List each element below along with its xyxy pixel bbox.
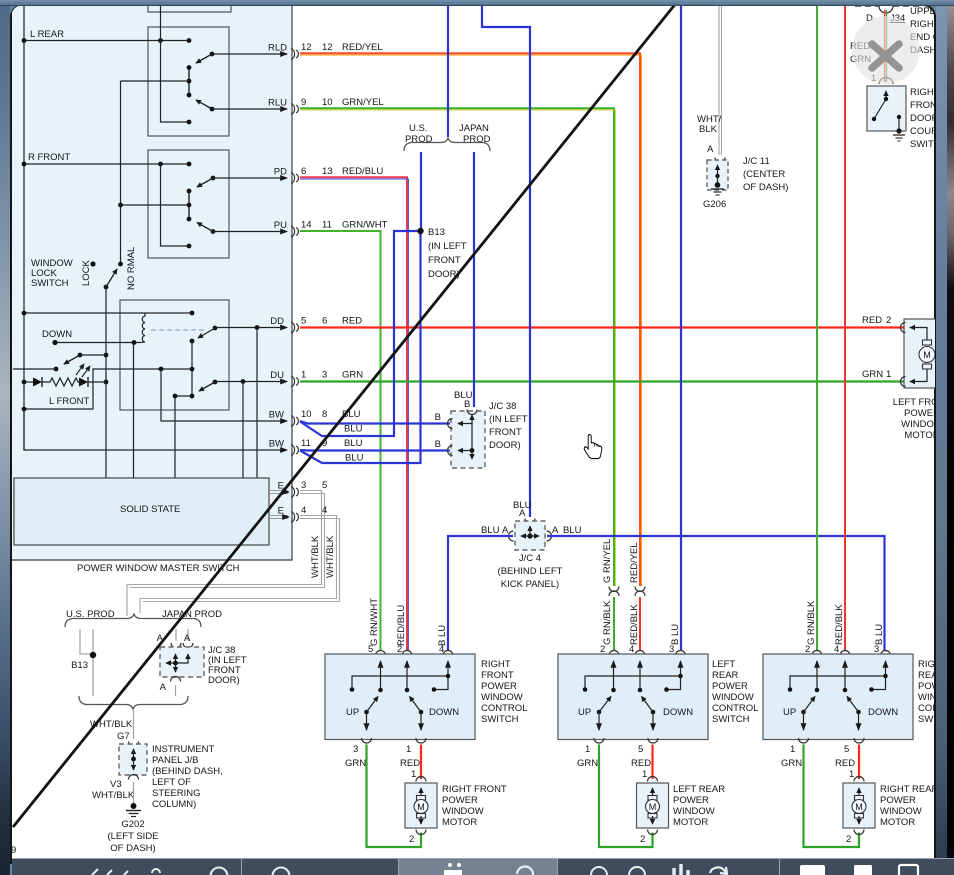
connector pin RLU 9/10 xyxy=(268,97,384,115)
svg-text:NO RMAL: NO RMAL xyxy=(126,247,137,290)
svg-text:A: A xyxy=(519,508,526,519)
motor right front power window xyxy=(405,777,437,846)
wire U.S. arm left xyxy=(80,629,93,654)
wire JAPAN arm A2 xyxy=(187,629,189,641)
connector pin BW 11/9 xyxy=(269,438,364,464)
svg-text:POWER: POWER xyxy=(904,408,940,419)
svg-text:BLK: BLK xyxy=(699,124,718,135)
svg-text:M: M xyxy=(649,802,657,812)
junction connector J/C 4 xyxy=(509,508,552,550)
wire RLU out xyxy=(212,108,287,110)
wire GRN left rear return xyxy=(577,744,653,847)
window lock switch lever xyxy=(104,269,117,289)
svg-text:A: A xyxy=(552,525,559,536)
svg-text:G RN/WHT: G RN/WHT xyxy=(369,598,380,646)
svg-text:RED: RED xyxy=(835,758,855,769)
splice B13 xyxy=(417,227,466,280)
label J/C 38 text xyxy=(489,401,528,451)
wire WHT/BLK to G202 xyxy=(133,782,135,806)
wire WHT/BLK E2 xyxy=(140,516,340,614)
wire lock pivot down xyxy=(104,287,109,478)
svg-text:2: 2 xyxy=(640,834,645,845)
svg-text:BLU: BLU xyxy=(563,525,582,536)
diode D2 xyxy=(79,377,106,387)
svg-text:LEFT OF: LEFT OF xyxy=(152,777,191,788)
label GRN 1 at left front motor xyxy=(862,369,891,380)
svg-text:B13: B13 xyxy=(428,227,445,238)
relay coil K1 xyxy=(140,313,145,343)
svg-text:G202: G202 xyxy=(121,819,144,830)
svg-text:B: B xyxy=(435,439,441,450)
svg-text:GRN: GRN xyxy=(345,758,366,769)
svg-text:E: E xyxy=(278,506,284,517)
close button X xyxy=(852,16,920,84)
rotated wire labels above right rear switch xyxy=(806,600,885,645)
svg-text:RED/BLK: RED/BLK xyxy=(629,604,640,645)
wire E2 out of solid state xyxy=(269,516,288,519)
svg-text:13: 13 xyxy=(322,166,333,177)
svg-text:(BEHIND LEFT: (BEHIND LEFT xyxy=(498,566,563,577)
svg-text:INSTRUMENT: INSTRUMENT xyxy=(152,744,214,755)
wire RED/YEL xyxy=(300,53,641,586)
annotation diagonal line xyxy=(13,2,677,827)
svg-text:GRN: GRN xyxy=(781,758,802,769)
label RIGHT FRONT DOOR COURTESY SWITCH xyxy=(910,87,954,150)
unit A center contact column xyxy=(187,65,192,97)
svg-text:RIGHT: RIGHT xyxy=(481,659,511,670)
svg-text:PD: PD xyxy=(274,167,287,178)
svg-text:L FRONT: L FRONT xyxy=(49,396,89,407)
svg-text:5: 5 xyxy=(301,316,306,327)
wire R FRONT feed xyxy=(22,162,192,167)
label J/C 11 text xyxy=(743,156,788,193)
svg-text:RIGHT FRONT: RIGHT FRONT xyxy=(442,784,507,795)
svg-text:2: 2 xyxy=(886,315,891,326)
wire GRN/BLK feed to right rear switch xyxy=(816,5,818,651)
svg-text:1: 1 xyxy=(849,769,854,780)
switch left rear power window control xyxy=(558,644,708,743)
svg-text:11: 11 xyxy=(322,220,332,231)
wire relay contact column xyxy=(190,341,195,398)
svg-text:PANEL J/B: PANEL J/B xyxy=(152,755,198,766)
svg-text:WINDOW: WINDOW xyxy=(442,806,484,817)
wire DU inside xyxy=(215,379,287,478)
svg-text:5: 5 xyxy=(322,480,327,491)
label RIGHT FRONT POWER WINDOW CONTROL SWITCH xyxy=(481,659,527,725)
motor right rear power window xyxy=(843,777,875,846)
svg-text:FRONT: FRONT xyxy=(481,670,514,681)
svg-text:REAR: REAR xyxy=(712,670,739,681)
svg-text:DU: DU xyxy=(270,370,284,381)
brace prod select upper xyxy=(65,614,201,628)
svg-text:GRN: GRN xyxy=(577,758,598,769)
splice B13 (lower) xyxy=(71,652,96,671)
toolbar page icons xyxy=(800,865,825,875)
toolbar book icon xyxy=(444,863,462,875)
svg-text:RED: RED xyxy=(400,758,420,769)
diode D1 xyxy=(22,377,42,387)
svg-text:R FRONT: R FRONT xyxy=(28,152,70,163)
svg-text:BLU: BLU xyxy=(345,453,364,464)
indicator arrows on diode xyxy=(76,364,90,377)
svg-text:B13: B13 xyxy=(71,660,88,671)
svg-text:MOTOR: MOTOR xyxy=(673,817,708,828)
svg-text:GRN/YEL: GRN/YEL xyxy=(342,97,384,108)
svg-text:V3: V3 xyxy=(110,779,122,790)
svg-text:RLU: RLU xyxy=(268,98,287,109)
rotated wire labels above right front switch xyxy=(369,598,448,646)
motor left front power window xyxy=(901,319,937,388)
svg-text:OF DASH): OF DASH) xyxy=(110,843,155,854)
svg-text:2: 2 xyxy=(600,644,605,655)
wire RED/BLU xyxy=(300,177,408,651)
wire relay top feed xyxy=(22,311,195,316)
connector pin E 4/4 xyxy=(278,505,328,523)
svg-text:(LEFT SIDE: (LEFT SIDE xyxy=(107,831,158,842)
svg-text:UP: UP xyxy=(346,707,359,718)
label RIGHT FRONT POWER WINDOW MOTOR xyxy=(442,784,507,828)
ground at courtesy switch xyxy=(893,128,905,141)
svg-text:4: 4 xyxy=(834,644,839,655)
switch right rear power window control xyxy=(763,644,913,743)
wire L FRONT bottom loop xyxy=(22,367,192,412)
svg-text:G7: G7 xyxy=(117,731,130,742)
svg-text:LEFT REAR: LEFT REAR xyxy=(673,784,725,795)
svg-text:G RN/YEL: G RN/YEL xyxy=(602,539,613,583)
labels around J/C 4 xyxy=(481,525,582,590)
svg-text:RED/BLU: RED/BLU xyxy=(342,166,383,177)
svg-text:DOWN: DOWN xyxy=(663,707,693,718)
label G202 xyxy=(107,819,158,854)
svg-text:DOWN: DOWN xyxy=(429,707,459,718)
label U.S. PROD / JAPAN PROD (top) xyxy=(405,123,491,145)
wire BLU feed to J/C 4 xyxy=(482,5,530,517)
wire PU out xyxy=(213,231,287,233)
svg-text:FRONT: FRONT xyxy=(489,427,522,438)
wire RED right rear to motor xyxy=(835,744,859,780)
wire BW1 inside xyxy=(161,369,287,421)
label J/C 38 lower text xyxy=(208,645,247,686)
label RIGHT REAR POWER WINDOW CONTROL SWITCH xyxy=(918,659,954,725)
contact LOCK position xyxy=(90,261,95,266)
svg-text:5: 5 xyxy=(638,744,643,755)
svg-text:WINDOW: WINDOW xyxy=(673,806,715,817)
svg-text:1: 1 xyxy=(301,370,306,381)
wire E1 out of solid state xyxy=(269,491,288,494)
inline connector pair RED/YEL to RED/BLK xyxy=(629,542,645,645)
connector pin DD 5/6 xyxy=(270,316,362,334)
label LEFT REAR POWER WINDOW CONTROL SWITCH xyxy=(712,659,758,725)
svg-text:DOWN: DOWN xyxy=(868,707,898,718)
wire relay lower stub xyxy=(173,394,192,478)
wire DD inside xyxy=(215,325,287,478)
switch right front door courtesy xyxy=(867,78,906,131)
svg-text:CONTROL: CONTROL xyxy=(481,703,527,714)
wire BLU U.S. prod arm xyxy=(420,152,422,231)
wire BLU to J/C 38 pin B upper xyxy=(300,421,450,424)
toolbar rotate icon xyxy=(517,866,533,875)
relay upper contact lever xyxy=(190,326,218,344)
contact DOWN / relay coil feed xyxy=(52,340,140,345)
svg-text:J/C 11: J/C 11 xyxy=(743,156,770,167)
svg-text:FRONT: FRONT xyxy=(428,255,461,266)
svg-text:RED: RED xyxy=(342,316,362,327)
svg-text:PU: PU xyxy=(274,220,287,231)
svg-text:MOTOR: MOTOR xyxy=(904,430,939,441)
svg-text:MOTOR: MOTOR xyxy=(442,817,477,828)
svg-text:BW: BW xyxy=(269,410,284,421)
svg-text:G RN/BLK: G RN/BLK xyxy=(806,600,817,645)
svg-text:LOCK: LOCK xyxy=(81,259,92,286)
solid state box xyxy=(14,478,269,545)
svg-text:UP: UP xyxy=(578,707,591,718)
wire BLU feed to prod brace xyxy=(447,5,449,137)
svg-text:MOTOR: MOTOR xyxy=(880,817,915,828)
label RED 2 at left front motor xyxy=(862,315,891,326)
wire U.S. arm main xyxy=(92,629,94,696)
svg-text:1: 1 xyxy=(886,369,891,380)
svg-text:M: M xyxy=(923,350,931,360)
svg-text:3: 3 xyxy=(669,644,674,655)
svg-text:DD: DD xyxy=(270,316,284,327)
svg-text:A: A xyxy=(160,682,167,693)
svg-text:B: B xyxy=(464,399,470,410)
svg-text:B LU: B LU xyxy=(874,624,885,645)
svg-text:GRN/WHT: GRN/WHT xyxy=(342,220,388,231)
junction instrument panel J/B xyxy=(119,742,147,780)
svg-text:5: 5 xyxy=(368,644,373,655)
svg-text:WINDOW: WINDOW xyxy=(481,692,523,703)
svg-text:WINDOW: WINDOW xyxy=(712,692,754,703)
svg-text:G206: G206 xyxy=(703,199,726,210)
svg-text:OF DASH): OF DASH) xyxy=(743,182,788,193)
svg-text:10: 10 xyxy=(322,97,333,108)
ground G206 xyxy=(711,182,724,195)
svg-text:12: 12 xyxy=(322,42,333,53)
svg-text:POWER: POWER xyxy=(442,795,478,806)
svg-text:DOOR): DOOR) xyxy=(489,440,521,451)
ground G202 xyxy=(126,803,141,817)
wire BW2 inside xyxy=(24,409,287,450)
relay lower contact lever xyxy=(199,380,217,391)
svg-text:GRN: GRN xyxy=(342,370,363,381)
brace prod select lower xyxy=(79,696,188,710)
wire GRN to left front motor xyxy=(300,380,905,382)
wire RED left rear to motor xyxy=(631,744,653,780)
svg-text:WHT/BLK: WHT/BLK xyxy=(325,535,336,578)
switch lever PU xyxy=(197,223,215,234)
R FRONT switch unit U-B box xyxy=(148,150,229,258)
junction connector J/C 38 (in left front door) xyxy=(435,399,485,468)
wire RED/BLK feed to right rear switch xyxy=(844,5,846,651)
svg-text:4: 4 xyxy=(322,505,327,516)
switch lever RLD xyxy=(196,52,214,63)
resistor R1 xyxy=(42,378,79,386)
svg-text:3: 3 xyxy=(301,480,306,491)
wire BLU feed to left rear switch xyxy=(680,5,682,651)
switch lever RLU xyxy=(196,100,214,111)
svg-text:B LU: B LU xyxy=(670,624,681,645)
svg-text:(IN LEFT: (IN LEFT xyxy=(428,241,467,252)
L REAR switch unit U-A box xyxy=(148,27,229,136)
wire JAPAN arm A1 xyxy=(175,629,177,641)
svg-text:6: 6 xyxy=(322,316,327,327)
junction connector J/C 38 (lower, in left front door) xyxy=(157,633,204,693)
label RED/GRN xyxy=(850,41,876,84)
toolbar zoom icons xyxy=(591,867,607,875)
svg-text:3: 3 xyxy=(874,644,879,655)
svg-text:STEERING: STEERING xyxy=(152,788,201,799)
toolbar draw icons xyxy=(92,868,228,875)
wire RED to left front motor xyxy=(300,326,905,328)
cut-off switch unit box at top xyxy=(148,4,231,12)
label WHT/BLK at J/C 11 xyxy=(697,114,722,155)
mouse cursor xyxy=(584,435,602,459)
svg-text:(IN LEFT: (IN LEFT xyxy=(489,414,528,425)
wire GRN/BLK drop to left rear switch xyxy=(613,597,615,651)
L FRONT relay unit box xyxy=(120,300,229,410)
svg-text:SWITCH: SWITCH xyxy=(712,714,750,725)
svg-text:POWER: POWER xyxy=(712,681,748,692)
svg-text:KICK PANEL): KICK PANEL) xyxy=(501,579,559,590)
wire lock-bus to unit B center xyxy=(121,204,190,206)
svg-text:BLU: BLU xyxy=(344,424,363,435)
label LEFT FRONT POWER WINDOW MOTOR xyxy=(893,397,952,441)
svg-text:GRN: GRN xyxy=(862,369,883,380)
unit B center contact column xyxy=(187,189,192,222)
svg-text:SWITCH: SWITCH xyxy=(31,278,69,289)
inline connector pair GRN/YEL to GRN/BLK xyxy=(602,539,619,645)
toolbar bars icon xyxy=(674,864,688,875)
connector pin BW 10/8 xyxy=(269,409,363,435)
svg-text:1: 1 xyxy=(790,744,795,755)
connector pin DU 1/3 xyxy=(270,370,363,388)
connector pin PU 14/11 xyxy=(274,220,388,238)
L FRONT switch lever xyxy=(54,353,83,372)
toolbar undo arrow icon xyxy=(710,867,727,874)
svg-text:WHT/BLK: WHT/BLK xyxy=(310,535,321,578)
wire L REAR feed xyxy=(22,38,192,43)
label WINDOW LOCK SWITCH xyxy=(31,258,73,289)
svg-text:SWITCH: SWITCH xyxy=(481,714,519,725)
wire GRN right front return xyxy=(345,744,421,847)
motor left rear power window xyxy=(637,777,669,846)
svg-text:9: 9 xyxy=(301,97,306,108)
svg-text:RED: RED xyxy=(631,758,651,769)
svg-text:12: 12 xyxy=(301,42,312,53)
junction connector J/C 11 xyxy=(707,158,728,191)
svg-text:(BEHIND DASH,: (BEHIND DASH, xyxy=(152,766,223,777)
connector pin PD 6/13 xyxy=(274,166,384,184)
wire lock normal-bus x=120.5 xyxy=(118,81,123,266)
svg-text:M: M xyxy=(417,802,425,812)
svg-text:J/C 38: J/C 38 xyxy=(489,401,516,412)
wire lock-bus to unit A center xyxy=(121,80,190,82)
svg-text:8: 8 xyxy=(322,409,327,420)
label LEFT REAR POWER WINDOW MOTOR xyxy=(673,784,725,828)
svg-text:A: A xyxy=(707,144,714,155)
svg-text:LEFT: LEFT xyxy=(712,659,735,670)
brace U.S./JAPAN prod (top) xyxy=(404,138,490,152)
svg-text:POWER: POWER xyxy=(673,795,709,806)
wire BLU J/C4 right branch to right rear switch xyxy=(547,536,885,651)
svg-text:RED/YEL: RED/YEL xyxy=(629,542,640,583)
power window master switch body xyxy=(12,4,292,560)
wire RED/GRN to courtesy switch xyxy=(885,10,887,82)
svg-text:1: 1 xyxy=(411,769,416,780)
wire BLU to J/C 38 pin B lower xyxy=(300,449,450,452)
svg-text:B LU: B LU xyxy=(437,625,448,646)
svg-text:U.S.: U.S. xyxy=(409,123,427,134)
svg-text:M: M xyxy=(855,802,863,812)
svg-text:POWER: POWER xyxy=(880,795,916,806)
svg-text:11: 11 xyxy=(301,438,311,449)
svg-text:1: 1 xyxy=(585,744,590,755)
wire GRN/YEL xyxy=(300,108,615,586)
svg-text:2: 2 xyxy=(409,834,414,845)
svg-text:RED/YEL: RED/YEL xyxy=(342,42,383,53)
label UPPER RIGHT END OF DASH xyxy=(910,6,946,56)
svg-text:RED/BLU: RED/BLU xyxy=(396,605,407,646)
svg-text:CONTROL: CONTROL xyxy=(712,703,758,714)
svg-text:2: 2 xyxy=(846,834,851,845)
connector J34 at top xyxy=(855,6,920,24)
wire main bus x=24 xyxy=(23,5,25,450)
svg-text:SOLID STATE: SOLID STATE xyxy=(120,504,180,515)
svg-text:4: 4 xyxy=(629,644,634,655)
svg-text:DOOR: DOOR xyxy=(910,113,939,124)
svg-text:WINDOW: WINDOW xyxy=(880,806,922,817)
svg-text:RED/BLK: RED/BLK xyxy=(834,604,845,645)
svg-text:B: B xyxy=(435,412,441,423)
wire coil return down xyxy=(133,343,135,479)
svg-text:1: 1 xyxy=(642,769,647,780)
svg-text:A: A xyxy=(502,525,509,536)
svg-text:JAPAN: JAPAN xyxy=(459,123,489,134)
svg-text:9: 9 xyxy=(11,845,16,856)
wire RLD out xyxy=(212,53,287,55)
wire BLU J/C4 left branch to right front switch xyxy=(448,536,513,651)
wire BLU to B13 branch upper xyxy=(300,231,421,436)
svg-text:5: 5 xyxy=(844,744,849,755)
svg-text:POWER WINDOW MASTER SWITCH: POWER WINDOW MASTER SWITCH xyxy=(77,563,240,574)
wire L FRONT up contact xyxy=(80,354,106,356)
wire GRN/WHT xyxy=(300,231,381,651)
svg-text:L REAR: L REAR xyxy=(30,29,64,40)
svg-text:BW: BW xyxy=(269,439,284,450)
svg-text:A: A xyxy=(184,633,191,644)
wire WHT/BLK E1 xyxy=(127,491,325,617)
wire RED right front to motor xyxy=(400,744,421,780)
label WHT/BLK (rotated pair) xyxy=(310,535,336,578)
relay mechanical link (dashed) xyxy=(151,329,204,331)
wire JAPAN arm below jc38 xyxy=(175,685,177,696)
wire WHT/BLK feed to J/C 11 xyxy=(719,5,722,155)
svg-text:BLU: BLU xyxy=(481,525,500,536)
wire BLU to B13 branch lower xyxy=(300,231,421,463)
svg-text:6: 6 xyxy=(301,166,306,177)
svg-text:RLD: RLD xyxy=(268,43,287,54)
svg-text:2: 2 xyxy=(397,644,402,655)
label RIGHT REAR POWER WINDOW MOTOR xyxy=(880,784,939,828)
toolbar selected segment xyxy=(399,859,557,875)
svg-text:14: 14 xyxy=(301,220,312,231)
svg-text:2: 2 xyxy=(805,644,810,655)
wire unit B left leg xyxy=(161,164,192,248)
svg-text:J/C 4: J/C 4 xyxy=(519,553,541,564)
wire RED/BLK drop to left rear switch xyxy=(639,597,641,651)
connector pin RLD 12/12 xyxy=(268,42,383,60)
